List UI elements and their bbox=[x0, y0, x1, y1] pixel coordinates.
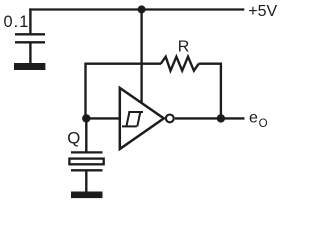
hysteresis symbol bbox=[122, 112, 143, 126]
wire Vcc to inverter top bbox=[140, 9, 142, 103]
op-amp U1 Schmitt inverter triangle bbox=[120, 88, 164, 149]
node junction on +5V rail bbox=[138, 5, 146, 13]
capacitor C 0.1 bbox=[15, 34, 45, 42]
wire input to inverter bbox=[86, 117, 119, 119]
ground (crystal) bbox=[71, 192, 103, 199]
svg-text:Q: Q bbox=[67, 129, 80, 148]
wire node to crystal bbox=[85, 118, 87, 152]
node A input junction bbox=[82, 114, 90, 122]
wire output bbox=[175, 117, 245, 119]
wire resistor right to output node bbox=[199, 64, 221, 119]
wire top +5V rail bbox=[29, 8, 244, 10]
svg-text:0.1: 0.1 bbox=[4, 13, 30, 31]
wire capacitor drop from rail bbox=[29, 8, 31, 33]
svg-text:R: R bbox=[178, 39, 190, 56]
svg-text:e: e bbox=[249, 110, 258, 127]
resistor R bbox=[161, 57, 199, 71]
wire crystal to ground bbox=[85, 171, 87, 191]
svg-text:+5V: +5V bbox=[248, 3, 277, 20]
ground (capacitor) bbox=[14, 63, 45, 70]
wire capacitor to ground bbox=[29, 43, 31, 63]
crystal Q bbox=[69, 152, 103, 170]
svg-text:O: O bbox=[259, 118, 268, 130]
node output junction bbox=[217, 114, 225, 122]
wire feedback left segment bbox=[86, 64, 162, 119]
inverter output bubble bbox=[166, 115, 174, 123]
